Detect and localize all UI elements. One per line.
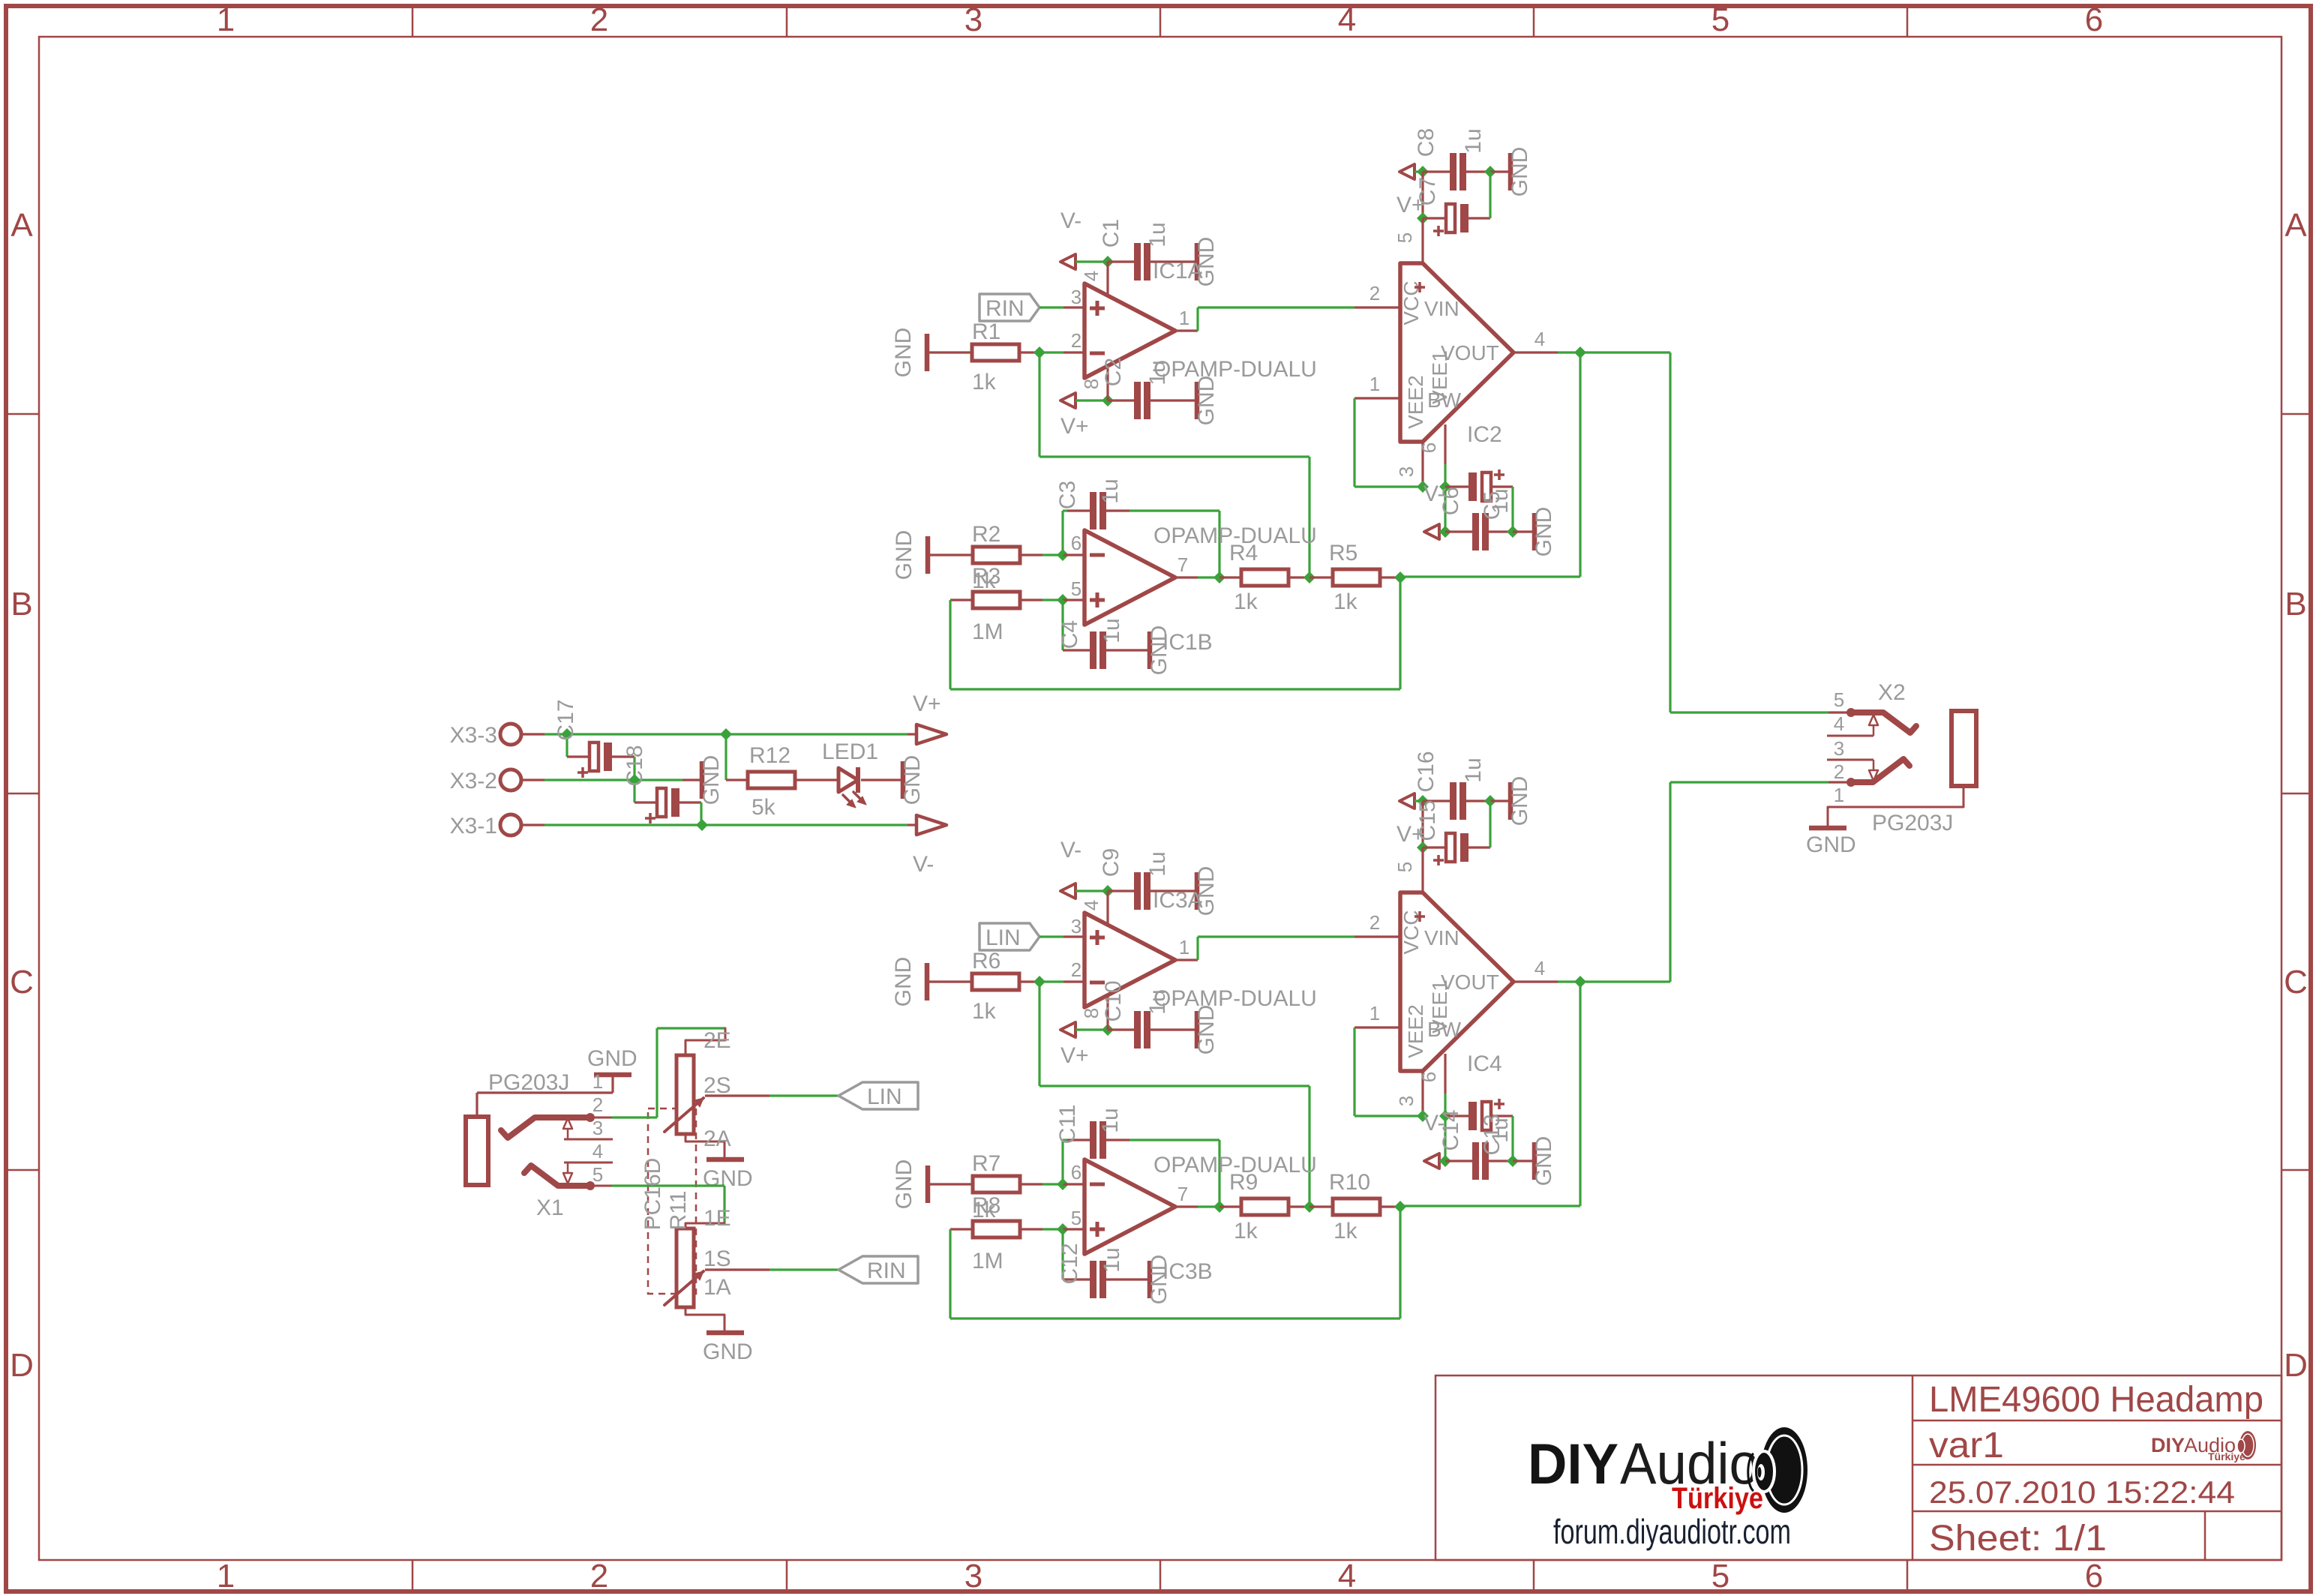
svg-text:IC4: IC4	[1467, 1051, 1502, 1076]
svg-text:C3: C3	[1055, 481, 1080, 509]
svg-text:3: 3	[1395, 1096, 1417, 1106]
svg-text:2E: 2E	[703, 1028, 731, 1053]
svg-text:4: 4	[1338, 1558, 1356, 1594]
svg-text:GND: GND	[1806, 832, 1856, 857]
svg-text:6: 6	[1071, 532, 1081, 554]
svg-text:GND: GND	[1194, 376, 1219, 426]
svg-text:IC3A: IC3A	[1153, 888, 1203, 913]
svg-text:5: 5	[1834, 688, 1844, 711]
svg-text:IC2: IC2	[1467, 422, 1502, 447]
svg-text:1M: 1M	[972, 619, 1003, 644]
svg-text:5: 5	[1711, 1, 1729, 38]
svg-text:1: 1	[217, 1558, 235, 1594]
svg-text:4: 4	[1534, 957, 1545, 979]
svg-text:V-: V-	[1060, 838, 1081, 862]
svg-text:RIN: RIN	[867, 1258, 906, 1283]
svg-text:IC3B: IC3B	[1162, 1259, 1213, 1284]
svg-text:1u: 1u	[1099, 618, 1124, 643]
svg-text:5: 5	[1393, 862, 1416, 872]
svg-text:3: 3	[964, 1, 982, 38]
svg-text:4: 4	[1080, 900, 1102, 910]
svg-text:4: 4	[1534, 328, 1545, 350]
svg-text:VEE2: VEE2	[1404, 375, 1427, 429]
svg-text:2: 2	[1071, 958, 1081, 981]
svg-text:RIN: RIN	[985, 296, 1024, 321]
svg-text:4: 4	[1080, 271, 1102, 281]
svg-text:X3-2: X3-2	[450, 769, 497, 793]
svg-text:3: 3	[1395, 466, 1417, 477]
svg-text:7: 7	[1177, 1183, 1188, 1205]
svg-text:C8: C8	[1414, 128, 1438, 157]
svg-text:R12: R12	[749, 743, 790, 768]
svg-text:V-: V-	[1060, 208, 1081, 233]
svg-text:1u: 1u	[1488, 1117, 1513, 1142]
svg-text:C16: C16	[1414, 751, 1438, 792]
svg-text:Sheet: 1/1: Sheet: 1/1	[1929, 1519, 2107, 1558]
svg-text:LME49600 Headamp: LME49600 Headamp	[1929, 1380, 2263, 1420]
svg-text:OPAMP-DUALU: OPAMP-DUALU	[1153, 986, 1317, 1011]
svg-text:6: 6	[1071, 1161, 1081, 1183]
svg-text:C9: C9	[1099, 848, 1123, 877]
svg-text:1u: 1u	[1488, 488, 1513, 513]
svg-text:R8: R8	[972, 1193, 1000, 1218]
svg-text:LIN: LIN	[867, 1084, 902, 1109]
svg-text:Türkiye: Türkiye	[1672, 1482, 1763, 1515]
svg-text:forum.diyaudiotr.com: forum.diyaudiotr.com	[1553, 1512, 1791, 1551]
svg-text:X2: X2	[1878, 680, 1906, 705]
svg-text:DIY: DIY	[2151, 1434, 2185, 1456]
svg-text:GND: GND	[1531, 507, 1556, 557]
svg-text:R3: R3	[972, 564, 1000, 589]
svg-text:GND: GND	[703, 1339, 753, 1364]
svg-text:R5: R5	[1329, 541, 1357, 565]
svg-text:1: 1	[217, 1, 235, 38]
svg-text:GND: GND	[1531, 1136, 1556, 1186]
svg-text:2: 2	[590, 1558, 608, 1594]
svg-text:C1: C1	[1099, 219, 1123, 247]
svg-text:4: 4	[592, 1140, 603, 1162]
svg-text:1k: 1k	[1234, 589, 1258, 614]
svg-text:2: 2	[1369, 282, 1380, 304]
svg-text:4: 4	[1834, 712, 1844, 735]
svg-text:X3-3: X3-3	[450, 723, 497, 748]
svg-text:V+: V+	[1396, 822, 1425, 847]
svg-text:X1: X1	[536, 1195, 564, 1220]
svg-text:3: 3	[964, 1558, 982, 1594]
svg-text:1: 1	[1834, 784, 1844, 806]
svg-text:2: 2	[592, 1093, 603, 1116]
svg-text:1k: 1k	[972, 370, 997, 394]
svg-text:DIY: DIY	[1528, 1432, 1618, 1496]
svg-text:R1: R1	[972, 319, 1000, 344]
svg-text:2: 2	[1834, 760, 1844, 783]
svg-text:1: 1	[1179, 936, 1189, 958]
svg-text:BW: BW	[1427, 388, 1462, 412]
svg-text:C12: C12	[1057, 1243, 1082, 1284]
svg-text:7: 7	[1177, 553, 1188, 576]
svg-text:C: C	[2284, 964, 2308, 1000]
svg-text:C: C	[10, 964, 34, 1000]
svg-text:IC1B: IC1B	[1162, 630, 1213, 655]
svg-text:5: 5	[592, 1163, 603, 1186]
svg-text:GND: GND	[587, 1046, 637, 1071]
svg-text:4: 4	[1338, 1, 1356, 38]
svg-text:3: 3	[1834, 737, 1844, 760]
svg-text:V+: V+	[913, 691, 941, 716]
svg-text:8: 8	[1080, 379, 1102, 389]
svg-text:B: B	[2284, 586, 2306, 622]
svg-text:6: 6	[2085, 1558, 2103, 1594]
svg-text:1k: 1k	[1333, 1219, 1358, 1243]
svg-text:B: B	[10, 586, 32, 622]
svg-text:5: 5	[1071, 577, 1081, 600]
svg-text:8: 8	[1080, 1008, 1102, 1018]
svg-text:V+: V+	[1060, 414, 1089, 439]
svg-text:3: 3	[1071, 915, 1081, 937]
svg-text:OPAMP-DUALU: OPAMP-DUALU	[1153, 1153, 1317, 1177]
svg-text:5: 5	[1393, 232, 1416, 243]
svg-text:1S: 1S	[703, 1246, 731, 1271]
svg-text:2: 2	[1369, 911, 1380, 934]
svg-text:C4: C4	[1057, 620, 1082, 649]
svg-text:1u: 1u	[1145, 222, 1170, 247]
svg-text:GND: GND	[891, 328, 916, 378]
svg-text:C10: C10	[1101, 980, 1126, 1021]
svg-text:3: 3	[592, 1117, 603, 1139]
svg-text:GND: GND	[892, 1159, 916, 1210]
svg-text:1E: 1E	[703, 1206, 731, 1231]
svg-text:5: 5	[1071, 1207, 1081, 1229]
svg-text:1u: 1u	[1461, 128, 1486, 153]
svg-text:var1: var1	[1929, 1426, 2004, 1465]
svg-text:PC16D: PC16D	[640, 1158, 665, 1231]
svg-text:V+: V+	[1396, 193, 1425, 217]
svg-text:OPAMP-DUALU: OPAMP-DUALU	[1153, 523, 1317, 548]
svg-text:A: A	[2284, 207, 2307, 244]
svg-text:1k: 1k	[1333, 589, 1358, 614]
svg-text:R10: R10	[1329, 1170, 1370, 1195]
svg-text:D: D	[10, 1347, 34, 1384]
svg-text:C17: C17	[553, 699, 578, 740]
svg-text:OPAMP-DUALU: OPAMP-DUALU	[1153, 357, 1317, 382]
svg-text:GND: GND	[1507, 776, 1532, 826]
svg-text:V+: V+	[1060, 1043, 1089, 1068]
svg-text:GND: GND	[703, 1166, 753, 1191]
svg-text:1A: 1A	[703, 1275, 731, 1300]
svg-text:GND: GND	[699, 755, 724, 805]
svg-text:2: 2	[1071, 329, 1081, 352]
svg-text:1k: 1k	[1234, 1219, 1258, 1243]
svg-text:A: A	[10, 207, 33, 244]
svg-text:VEE2: VEE2	[1404, 1004, 1427, 1058]
svg-text:V-: V-	[1423, 1111, 1444, 1135]
svg-text:D: D	[2284, 1347, 2308, 1384]
svg-text:1u: 1u	[1099, 1247, 1124, 1272]
svg-text:2A: 2A	[703, 1126, 731, 1151]
svg-text:R6: R6	[972, 949, 1000, 973]
svg-text:R2: R2	[972, 522, 1000, 547]
svg-text:2: 2	[590, 1, 608, 38]
svg-text:C11: C11	[1055, 1105, 1080, 1144]
svg-text:V-: V-	[1423, 481, 1444, 506]
svg-text:Türkiye: Türkiye	[2208, 1450, 2245, 1462]
svg-text:1u: 1u	[1145, 851, 1170, 876]
svg-text:GND: GND	[892, 530, 916, 580]
svg-text:6: 6	[1417, 442, 1440, 453]
svg-text:C18: C18	[622, 745, 647, 786]
svg-text:C2: C2	[1101, 358, 1126, 386]
svg-text:1: 1	[1369, 1002, 1380, 1024]
svg-text:1M: 1M	[972, 1249, 1003, 1273]
svg-text:6: 6	[1417, 1072, 1440, 1082]
svg-text:GND: GND	[1194, 1005, 1219, 1055]
svg-text:GND: GND	[900, 755, 925, 805]
svg-text:25.07.2010 15:22:44: 25.07.2010 15:22:44	[1929, 1474, 2235, 1510]
svg-text:5: 5	[1711, 1558, 1729, 1594]
svg-text:6: 6	[2085, 1, 2103, 38]
svg-text:IC1A: IC1A	[1153, 259, 1203, 283]
svg-text:R7: R7	[972, 1151, 1000, 1176]
svg-text:3: 3	[1071, 286, 1081, 308]
svg-text:V-: V-	[913, 852, 934, 877]
svg-text:1k: 1k	[972, 999, 997, 1024]
svg-text:1: 1	[1369, 373, 1380, 395]
svg-text:X3-1: X3-1	[450, 814, 497, 838]
svg-text:PG203J: PG203J	[1872, 811, 1953, 835]
svg-text:PG203J: PG203J	[488, 1070, 569, 1095]
svg-text:1: 1	[592, 1070, 603, 1093]
svg-text:2S: 2S	[703, 1073, 731, 1098]
svg-text:1u: 1u	[1098, 1108, 1123, 1132]
svg-text:GND: GND	[1507, 147, 1532, 197]
svg-text:LED1: LED1	[822, 739, 878, 764]
svg-text:LIN: LIN	[985, 925, 1021, 950]
svg-text:1u: 1u	[1098, 478, 1123, 503]
svg-text:R11: R11	[666, 1191, 691, 1231]
svg-text:1u: 1u	[1461, 757, 1486, 782]
svg-text:5k: 5k	[751, 795, 776, 820]
svg-text:1: 1	[1179, 307, 1189, 329]
svg-text:GND: GND	[891, 957, 916, 1007]
svg-text:BW: BW	[1427, 1018, 1462, 1041]
svg-text:VIN: VIN	[1424, 926, 1459, 949]
svg-text:VIN: VIN	[1424, 297, 1459, 320]
